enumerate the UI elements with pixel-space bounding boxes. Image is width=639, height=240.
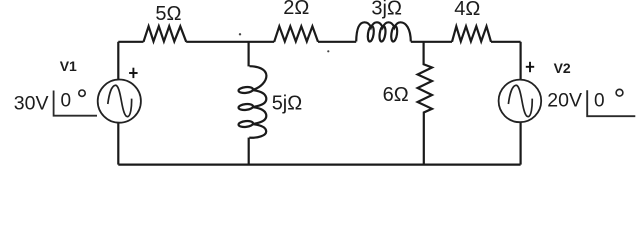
svg-text:20V: 20V — [547, 89, 582, 111]
svg-text:2Ω: 2Ω — [283, 0, 309, 19]
V2 angle bracket — [587, 90, 635, 116]
svg-text:5jΩ: 5jΩ — [272, 93, 303, 115]
source V1 circle — [98, 80, 141, 123]
wire top rail between 3j and 4ohm — [411, 41, 452, 43]
wire right rail lower — [519, 122, 521, 164]
wire left rail upper — [117, 42, 119, 80]
wire top rail between 5ohm and 2ohm — [186, 41, 274, 43]
resistor R 2ohm zigzag — [274, 26, 318, 42]
V1 angle bracket — [54, 91, 97, 116]
inductor L 3j loop 3 — [390, 26, 398, 42]
stray mark dot below top rail — [327, 50, 329, 52]
source V1 sine — [108, 85, 132, 116]
source V2 sine — [508, 85, 532, 116]
V1 degree symbol — [79, 90, 85, 96]
svg-text:6Ω: 6Ω — [383, 84, 409, 106]
inductor L 5j loop 3 — [238, 120, 253, 127]
resistor R 6ohm vertical zigzag with leads — [418, 42, 432, 165]
wire 5j branch lower — [248, 138, 250, 165]
svg-text:0: 0 — [594, 91, 605, 112]
inductor L 3j loop 2 — [379, 26, 387, 42]
V2 plus polarity sign — [526, 62, 534, 72]
V2 degree symbol — [616, 89, 623, 96]
resistor R 5ohm zigzag — [144, 26, 187, 42]
wire top rail between 2ohm and 3j inductor — [318, 41, 356, 43]
inductor L 5j humps — [249, 66, 266, 138]
inductor L 5j loop 2 — [238, 103, 253, 110]
wire 5j branch upper — [248, 42, 250, 67]
svg-text:V1: V1 — [60, 58, 77, 74]
inductor L 5j loop 1 — [238, 86, 253, 93]
source V2 circle — [499, 80, 542, 123]
svg-text:0: 0 — [61, 91, 72, 112]
svg-text:4Ω: 4Ω — [454, 0, 480, 20]
wire top rail left segment — [118, 41, 143, 43]
wire right rail upper — [519, 42, 521, 80]
resistor R 4ohm zigzag — [452, 26, 491, 42]
wire bottom rail — [118, 164, 520, 166]
wire top rail right segment — [491, 41, 521, 43]
stray mark dot near node A — [239, 33, 241, 35]
inductor L 3j loop 1 — [367, 26, 375, 42]
V1 plus polarity sign — [129, 68, 138, 78]
wire left rail lower — [117, 123, 119, 165]
inductor L 3j humps — [356, 22, 411, 41]
svg-text:30V: 30V — [14, 92, 49, 114]
svg-text:5Ω: 5Ω — [155, 3, 181, 25]
svg-text:V2: V2 — [554, 60, 571, 76]
svg-text:3jΩ: 3jΩ — [371, 0, 402, 20]
